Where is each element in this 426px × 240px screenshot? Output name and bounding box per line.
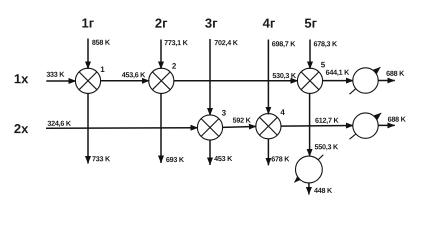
heat exchanger 5 xyxy=(297,68,322,93)
utility cooler X1 xyxy=(294,155,323,183)
svg-text:4г: 4г xyxy=(263,16,276,31)
hot stream 5г wire to cooler xyxy=(309,93,311,156)
svg-text:612,7 K: 612,7 K xyxy=(315,116,339,125)
svg-text:3г: 3г xyxy=(205,16,218,31)
heat exchanger 3 xyxy=(197,115,222,140)
hot stream 5г outlet wire xyxy=(308,183,310,195)
heat exchanger 1 xyxy=(75,68,100,93)
svg-text:858 K: 858 K xyxy=(92,38,111,47)
hot stream 5г inlet wire xyxy=(309,40,311,70)
svg-text:2г: 2г xyxy=(155,16,168,31)
hot stream 4г outlet wire xyxy=(267,139,269,166)
svg-text:3: 3 xyxy=(222,109,227,118)
svg-text:678 K: 678 K xyxy=(271,154,290,163)
svg-text:2х: 2х xyxy=(14,121,29,136)
svg-text:448 K: 448 K xyxy=(314,186,333,195)
svg-text:333 K: 333 K xyxy=(46,70,65,79)
cold stream 1х outlet wire xyxy=(378,80,395,82)
svg-text:1г: 1г xyxy=(82,16,95,31)
svg-text:453 K: 453 K xyxy=(214,154,233,163)
svg-text:453,6 K: 453,6 K xyxy=(122,70,146,79)
hot stream 4г inlet wire xyxy=(267,40,269,115)
svg-text:688 K: 688 K xyxy=(386,69,405,78)
hot stream 1г outlet wire xyxy=(87,93,89,163)
svg-text:644,1 K: 644,1 K xyxy=(326,68,350,77)
svg-text:530,3 K: 530,3 K xyxy=(272,71,296,80)
wire exchanger 5 to heater H1 xyxy=(323,80,354,82)
svg-text:773,1 K: 773,1 K xyxy=(164,38,188,47)
svg-text:1: 1 xyxy=(100,65,105,74)
cold stream 1х inlet wire xyxy=(46,80,76,82)
svg-text:1х: 1х xyxy=(14,71,29,86)
hot stream 3г outlet wire xyxy=(209,140,211,165)
svg-text:4: 4 xyxy=(280,108,285,117)
heat exchanger 4 xyxy=(256,114,281,139)
wire exchanger 1 to exchanger 2 xyxy=(101,80,150,82)
wire exchanger 3 to exchanger 4 xyxy=(223,126,257,127)
wire exchanger 4 to heater H2 xyxy=(281,125,353,128)
svg-text:688 K: 688 K xyxy=(388,115,407,124)
wire exchanger 2 to exchanger 5 xyxy=(174,80,298,82)
svg-text:698,7 K: 698,7 K xyxy=(272,39,296,48)
utility heater H1 xyxy=(350,67,381,94)
svg-text:2: 2 xyxy=(172,62,177,71)
hot stream 2г outlet wire xyxy=(160,93,162,163)
svg-text:702,4 K: 702,4 K xyxy=(214,38,238,47)
svg-text:678,3 K: 678,3 K xyxy=(314,39,338,48)
hot stream 2г inlet wire xyxy=(160,40,162,70)
svg-text:733 K: 733 K xyxy=(92,154,111,163)
cold stream 2х outlet wire xyxy=(378,124,395,126)
svg-text:5г: 5г xyxy=(304,16,317,31)
hot stream 1г inlet wire xyxy=(87,39,89,70)
hot stream 3г inlet wire xyxy=(209,39,211,116)
heat exchanger 2 xyxy=(149,68,174,93)
utility heater H2 xyxy=(350,113,382,139)
svg-text:693 K: 693 K xyxy=(166,155,185,164)
svg-text:324,6 K: 324,6 K xyxy=(47,119,71,128)
svg-text:550,3 K: 550,3 K xyxy=(314,142,338,151)
svg-text:592 K: 592 K xyxy=(233,116,252,125)
cold stream 2х inlet wire xyxy=(46,127,198,130)
